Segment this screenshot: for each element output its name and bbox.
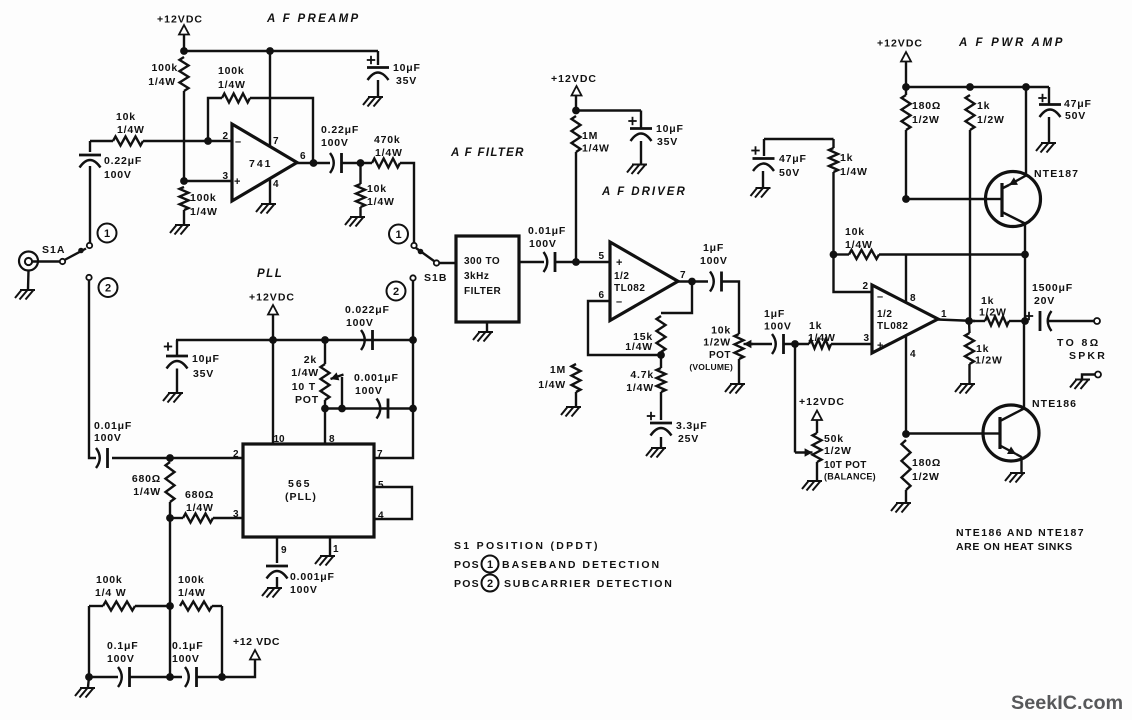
resistor R 10k 1/4W (feedback): [849, 250, 879, 259]
wire 1k gnd stub: [968, 364, 970, 383]
resistor R 1k 1/4W (pwr amp input): [809, 340, 831, 349]
svg-text:4.7k: 4.7k: [630, 369, 654, 381]
wire bottom rail a: [89, 676, 118, 678]
svg-text:1/2: 1/2: [614, 271, 629, 282]
svg-text:1/2W: 1/2W: [824, 445, 852, 457]
svg-text:POS: POS: [454, 578, 480, 590]
svg-text:S1 POSITION (DPDT): S1 POSITION (DPDT): [454, 540, 600, 552]
svg-text:10k: 10k: [711, 325, 731, 337]
node 100k centre: [166, 602, 174, 610]
svg-text:(VOLUME): (VOLUME): [689, 362, 733, 372]
capacitor C 0.022uF 100V: [361, 330, 365, 350]
switch arm S1A: [65, 249, 87, 261]
svg-text:–: –: [235, 136, 241, 148]
wire feedback from output: [661, 282, 692, 314]
wire pot bottom: [324, 400, 326, 409]
wire cap to terminal: [1047, 320, 1094, 322]
connector J1 BNC input: [19, 252, 38, 271]
ground 3.3uF: [646, 448, 666, 458]
ground 10k preamp out: [345, 217, 365, 227]
IC U2 565 PLL box: [243, 444, 374, 537]
svg-text:470k: 470k: [374, 134, 401, 146]
op-amp U3b 1/2 TL082: [872, 285, 938, 353]
wire pwr supply rail: [906, 86, 1049, 88]
switch contact S1B pos2: [410, 275, 415, 280]
svg-text:741: 741: [249, 158, 273, 170]
svg-text:POT: POT: [709, 350, 731, 361]
wire NTE186 base: [906, 432, 984, 434]
wire power to bottom rail: [222, 660, 255, 678]
switch contact S1A pos2: [86, 275, 91, 280]
svg-text:1/4W: 1/4W: [538, 379, 566, 391]
node output/1k: [965, 317, 973, 325]
svg-text:100V: 100V: [529, 238, 557, 250]
svg-text:SPKR: SPKR: [1069, 350, 1107, 362]
svg-text:1/4W: 1/4W: [808, 332, 836, 344]
capacitor C 0.01uF 100V (driver input): [544, 252, 548, 272]
node driver output: [688, 278, 696, 286]
svg-text:1/4W: 1/4W: [582, 143, 610, 155]
wire 10k to ground: [359, 207, 361, 217]
svg-text:10μF: 10μF: [393, 62, 421, 74]
svg-text:1: 1: [941, 309, 947, 320]
power symbol +12VDC (pwr): [901, 52, 911, 62]
node junction rail/R1: [180, 47, 188, 55]
wire cap to balance node: [784, 343, 810, 345]
capacitor C 0.01uF 100V (PLL input): [96, 448, 100, 468]
resistor R 100k 1/4W (left): [103, 602, 135, 611]
svg-text:35V: 35V: [657, 136, 678, 148]
svg-text:7: 7: [680, 270, 686, 281]
svg-text:1: 1: [104, 228, 110, 240]
ground non-inv divider: [170, 225, 190, 235]
ground speaker return: [1070, 380, 1090, 390]
wire BNC to switch pole: [32, 260, 60, 262]
svg-text:100V: 100V: [321, 137, 349, 149]
wire centre vert: [169, 606, 171, 677]
wire PLL power down to rail: [272, 315, 274, 341]
potentiometer R 50k 1/2W 10T POT (BALANCE): [816, 420, 818, 433]
svg-text:(BALANCE): (BALANCE): [824, 472, 876, 482]
svg-text:+12VDC: +12VDC: [249, 292, 295, 304]
svg-text:1/4W: 1/4W: [375, 147, 403, 159]
node wiper bottom: [338, 405, 346, 413]
svg-text:1/4W: 1/4W: [291, 367, 319, 379]
svg-text:10μF: 10μF: [192, 353, 220, 365]
svg-text:1/4W: 1/4W: [178, 587, 206, 599]
wire 15k to node: [660, 352, 662, 358]
svg-text:POS: POS: [454, 559, 480, 571]
node rail/2k pot: [321, 336, 329, 344]
svg-text:ARE ON HEAT SINKS: ARE ON HEAT SINKS: [956, 541, 1073, 553]
svg-text:S1B: S1B: [424, 272, 447, 284]
svg-text:10T POT: 10T POT: [824, 460, 867, 471]
svg-text:2: 2: [233, 449, 239, 460]
wire bottom rail c: [197, 676, 223, 678]
wire feedback loop right: [250, 98, 313, 163]
wire left vert: [88, 606, 90, 677]
filter block 300 TO 3kHz: [456, 236, 519, 322]
node bottom centre: [166, 673, 174, 681]
resistor R 1k 1/2W (to gnd): [968, 321, 971, 333]
svg-text:1k: 1k: [981, 295, 994, 307]
svg-text:0.22μF: 0.22μF: [104, 155, 142, 167]
wire pin4 down: [905, 336, 907, 434]
switch pole S1B: [434, 260, 439, 265]
svg-text:10k: 10k: [116, 111, 136, 123]
svg-text:1k: 1k: [809, 320, 822, 332]
wire pin2 drop: [834, 255, 873, 293]
capacitor C 0.001uF 100V (pin9): [266, 565, 288, 568]
svg-text:1/4W: 1/4W: [625, 341, 653, 353]
wire balance node down: [794, 344, 796, 453]
svg-text:1k: 1k: [977, 100, 990, 112]
svg-text:10k: 10k: [367, 183, 387, 195]
svg-text:TL082: TL082: [877, 321, 908, 332]
svg-text:1/4W: 1/4W: [845, 239, 873, 251]
ground NTE186 emitter: [1005, 473, 1025, 483]
wire 1k to pin3: [831, 343, 872, 345]
svg-text:50V: 50V: [779, 167, 800, 179]
wire PLL supply rail: [176, 339, 413, 341]
svg-text:3.3μF: 3.3μF: [676, 420, 707, 432]
svg-text:(PLL): (PLL): [285, 491, 317, 503]
wire 1k bias down: [832, 172, 834, 255]
ground output 1k: [955, 384, 975, 394]
svg-text:+12 VDC: +12 VDC: [233, 636, 280, 648]
ground 565 pin1: [315, 556, 335, 566]
svg-text:100V: 100V: [172, 653, 200, 665]
svg-text:0.1μF: 0.1μF: [107, 640, 138, 652]
wire NTE187 collector down: [1024, 224, 1026, 322]
ground volume pot: [725, 384, 745, 394]
capacitor C 1500uF 20V: [1025, 315, 1033, 317]
svg-text:1/4W: 1/4W: [367, 196, 395, 208]
svg-text:1/4W: 1/4W: [117, 124, 145, 136]
node speaker junction: [1021, 317, 1029, 325]
wire pin2 input: [112, 457, 243, 459]
svg-text:2: 2: [222, 131, 228, 142]
ground 1M lower: [561, 407, 581, 417]
svg-text:1/4W: 1/4W: [133, 486, 161, 498]
wire cap to volume pot: [722, 282, 740, 335]
node rail/180: [902, 83, 910, 91]
svg-text:2: 2: [393, 286, 399, 298]
svg-text:A F FILTER: A F FILTER: [450, 147, 525, 159]
node rail/right vert: [409, 336, 417, 344]
svg-text:+: +: [877, 340, 883, 352]
volume pot wiper arrow: [744, 343, 754, 345]
svg-text:6: 6: [300, 151, 306, 162]
svg-text:1/4W: 1/4W: [626, 382, 654, 394]
svg-text:0.01μF: 0.01μF: [94, 420, 132, 432]
svg-text:0.22μF: 0.22μF: [321, 124, 359, 136]
svg-text:NTE187: NTE187: [1034, 168, 1079, 180]
wire pin8 up: [905, 255, 907, 303]
node pin2/680: [166, 454, 174, 462]
ground 47uF left: [751, 188, 771, 198]
capacitor C 0.1uF 100V (left): [118, 667, 122, 687]
capacitor C 47uF 50V (pwr bypass right): [1048, 87, 1050, 104]
svg-text:1/2W: 1/2W: [975, 355, 1003, 367]
node rail/1k: [966, 83, 974, 91]
terminal speaker +: [1094, 318, 1100, 324]
wire pot bottom rail: [325, 407, 413, 409]
resistor R 4.7k 1/4W: [660, 355, 662, 368]
wire cap to 470k node: [342, 162, 373, 164]
resistor R 470k 1/4W: [372, 159, 400, 168]
svg-text:100k: 100k: [96, 574, 123, 586]
resistor R 15k 1/4W: [657, 316, 666, 352]
ground 10uF preamp: [363, 97, 383, 107]
wire cap to pin5 node: [555, 261, 576, 263]
svg-text:300 TO: 300 TO: [464, 256, 500, 267]
wire NTE186 emitter to gnd: [1020, 457, 1022, 473]
capacitor C 0.1uF 100V (right): [185, 667, 189, 687]
wire power to rail: [183, 35, 185, 52]
node rail/NTE187: [1022, 83, 1030, 91]
resistor R 100k 1/4W (right): [180, 602, 212, 611]
node label circled 1 (S1A): [98, 224, 117, 243]
svg-text:47μF: 47μF: [1064, 98, 1092, 110]
wire pin2 stub: [208, 140, 232, 142]
svg-text:35V: 35V: [396, 75, 417, 87]
svg-text:TL082: TL082: [614, 283, 645, 294]
power symbol +12VDC (PLL): [268, 305, 278, 315]
wire pin1 down: [329, 537, 331, 556]
capacitor C 3.3uF 25V: [660, 392, 662, 420]
node pin5 junction: [572, 258, 580, 266]
svg-text:TO 8Ω: TO 8Ω: [1057, 337, 1101, 349]
svg-text:100V: 100V: [107, 653, 135, 665]
wire pin10 to rail: [272, 340, 274, 444]
node 0.001 right: [409, 405, 417, 413]
wire output pin7: [678, 280, 708, 282]
capacitor C 10uF 35V (driver bypass): [640, 111, 642, 129]
svg-text:3kHz: 3kHz: [464, 271, 489, 282]
resistor R 680ohm 1/4W (vertical): [166, 462, 175, 502]
wire top supply rail: [184, 50, 378, 52]
potentiometer R 10k 1/2W POT (VOLUME): [735, 334, 744, 359]
svg-text:1/2W: 1/2W: [703, 337, 731, 349]
svg-text:1k: 1k: [976, 343, 989, 355]
wire right vertical to pin7: [374, 280, 413, 458]
switch arm S1B: [416, 248, 434, 261]
node junction rail/pin7: [266, 47, 274, 55]
svg-text:100V: 100V: [104, 169, 132, 181]
wire pwr output: [938, 320, 975, 322]
node pin2 fb junction: [830, 251, 838, 259]
svg-text:1/4W: 1/4W: [218, 79, 246, 91]
svg-text:7: 7: [273, 136, 279, 147]
wire R 100k to pin2 node: [183, 91, 185, 181]
svg-text:1k: 1k: [840, 152, 853, 164]
wire 100k right end: [212, 605, 222, 607]
wire 180 lower to gnd: [905, 490, 907, 502]
wire 10k fb to collector node: [879, 253, 1025, 255]
svg-text:1/2W: 1/2W: [912, 114, 940, 126]
svg-text:25V: 25V: [678, 433, 699, 445]
svg-text:100k: 100k: [151, 62, 178, 74]
svg-text:2: 2: [105, 282, 111, 294]
resistor R 100k 1/4W (inverting input pull-up): [180, 57, 189, 91]
potentiometer R 2k 1/4W 10T: [324, 340, 326, 364]
svg-text:1: 1: [487, 559, 493, 571]
resistor R 180ohm 1/2W (upper): [902, 95, 911, 130]
svg-text:50V: 50V: [1065, 110, 1086, 122]
resistor R 100k 1/4W (feedback): [222, 94, 250, 103]
op-amp U3a 1/2 TL082: [610, 242, 678, 321]
wire NTE186 collector up: [1023, 321, 1025, 409]
resistor R 1k 1/2W (upper): [966, 95, 975, 130]
wire pin9 down: [276, 537, 278, 563]
svg-text:100V: 100V: [700, 255, 728, 267]
svg-text:100V: 100V: [764, 321, 792, 333]
node balance junction: [791, 340, 799, 348]
svg-text:+12VDC: +12VDC: [877, 38, 923, 50]
svg-text:A F DRIVER: A F DRIVER: [601, 186, 687, 198]
ground op-amp pin4: [256, 204, 276, 214]
wire 1k to spkr node: [1009, 320, 1025, 322]
node NTE187 base: [902, 195, 910, 203]
wire driver power down: [575, 95, 577, 112]
wire 180 to base node: [905, 130, 907, 199]
svg-text:8: 8: [910, 293, 916, 304]
svg-text:0.1μF: 0.1μF: [172, 640, 203, 652]
svg-text:NTE186: NTE186: [1032, 398, 1077, 410]
svg-text:0.001μF: 0.001μF: [354, 372, 399, 384]
capacitor C 10uF 35V (preamp supply bypass): [377, 51, 379, 65]
resistor R 1M 1/4W (lower): [572, 364, 581, 392]
wire filter to cap: [519, 261, 544, 263]
wire 100k left end: [89, 605, 103, 607]
wire pin5 stub: [576, 261, 610, 263]
svg-text:4: 4: [910, 349, 916, 360]
resistor R 180ohm 1/2W (lower): [902, 440, 911, 490]
power symbol +12VDC (driver): [572, 86, 582, 96]
svg-text:PLL: PLL: [257, 268, 283, 280]
svg-text:–: –: [877, 291, 883, 303]
svg-text:1/2: 1/2: [877, 309, 892, 320]
svg-text:100V: 100V: [94, 432, 122, 444]
ground 47uF right: [1036, 143, 1056, 153]
ground 180 lower: [891, 503, 911, 513]
capacitor C 1uF 100V (driver output): [710, 272, 714, 292]
svg-text:180Ω: 180Ω: [912, 100, 941, 112]
ground pin9 cap: [262, 588, 282, 598]
svg-text:1μF: 1μF: [764, 308, 785, 320]
svg-text:10k: 10k: [845, 226, 865, 238]
wire pole to filter: [439, 262, 456, 264]
svg-text:2: 2: [487, 578, 493, 590]
svg-text:+12VDC: +12VDC: [157, 14, 203, 26]
power symbol +12VDC (bottom): [250, 650, 260, 660]
svg-text:NTE186 AND NTE187: NTE186 AND NTE187: [956, 527, 1085, 539]
node 680 junction: [166, 514, 174, 522]
svg-text:SUBCARRIER DETECTION: SUBCARRIER DETECTION: [504, 578, 674, 590]
capacitor C 1uF 100V (interstage): [751, 343, 772, 345]
svg-text:10 T: 10 T: [292, 381, 316, 393]
node pin2 junction: [204, 137, 212, 145]
svg-text:1/4W: 1/4W: [186, 502, 214, 514]
svg-text:2k: 2k: [304, 354, 317, 366]
resistor R 10k 1/4W (to gnd): [359, 163, 361, 184]
wire pin6 feedback: [588, 301, 661, 355]
svg-text:1/4W: 1/4W: [840, 166, 868, 178]
node output junction: [310, 159, 318, 167]
wire pin3 stub: [184, 180, 232, 182]
svg-text:BASEBAND DETECTION: BASEBAND DETECTION: [502, 559, 661, 571]
svg-text:50k: 50k: [824, 433, 844, 445]
svg-text:4: 4: [378, 511, 384, 522]
svg-text:35V: 35V: [193, 368, 214, 380]
svg-text:47μF: 47μF: [779, 153, 807, 165]
svg-text:680Ω: 680Ω: [185, 489, 214, 501]
wire 1M to pin5 node: [575, 152, 577, 262]
wire pin 7 to rail: [269, 51, 271, 147]
resistor R 1k 1/2W (output series): [969, 320, 985, 322]
svg-text:1μF: 1μF: [703, 242, 724, 254]
wire 1k down to output node: [969, 130, 971, 321]
wire 100k to ground: [183, 210, 185, 224]
svg-text:100V: 100V: [355, 385, 383, 397]
svg-text:20V: 20V: [1034, 295, 1055, 307]
resistor R 1k 1/4W (bias): [832, 139, 834, 148]
wire input cap to switch contact: [89, 166, 91, 243]
wire fb node to resistor: [834, 253, 850, 255]
svg-text:A F PWR AMP: A F PWR AMP: [958, 37, 1065, 49]
svg-text:0.001μF: 0.001μF: [290, 571, 335, 583]
node pot bottom: [321, 405, 329, 413]
wire 1M lower to gnd: [575, 392, 577, 406]
svg-text:FILTER: FILTER: [464, 286, 502, 297]
svg-text:6: 6: [598, 290, 604, 301]
svg-text:SeekIC.com: SeekIC.com: [1011, 692, 1123, 714]
svg-text:5: 5: [378, 480, 384, 491]
transistor Q1 NTE187: [986, 172, 1041, 227]
svg-text:100V: 100V: [290, 584, 318, 596]
svg-text:1/2W: 1/2W: [977, 114, 1005, 126]
node 470k junction: [357, 159, 365, 167]
svg-text:+: +: [616, 257, 622, 269]
svg-text:8: 8: [329, 434, 335, 445]
wire spkr return: [1082, 375, 1095, 380]
node label circled 2 (S1A): [99, 278, 118, 297]
svg-text:4: 4: [273, 179, 279, 190]
node collector/10k fb: [1021, 251, 1029, 259]
node 15k/4.7k: [657, 351, 665, 359]
svg-text:A F PREAMP: A F PREAMP: [266, 13, 361, 25]
wire to bypass cap: [576, 109, 641, 111]
node bottom left: [85, 673, 93, 681]
svg-text:1: 1: [395, 229, 401, 241]
resistor R 680ohm 1/4W (to pin3): [183, 514, 213, 523]
svg-text:7: 7: [377, 449, 383, 460]
svg-text:1500μF: 1500μF: [1032, 282, 1073, 294]
resistor R 100k 1/4W (non-inv to gnd): [180, 187, 189, 210]
wire pin8 to pot: [324, 409, 326, 445]
svg-text:2: 2: [862, 281, 868, 292]
svg-text:3: 3: [863, 333, 869, 344]
node label circled 1 (S1B): [389, 225, 408, 244]
svg-text:100V: 100V: [346, 317, 374, 329]
svg-text:1/4W: 1/4W: [148, 76, 176, 88]
svg-text:–: –: [616, 296, 622, 308]
wire 680 to node: [169, 502, 171, 518]
ground PLL 10uF: [163, 393, 183, 403]
switch contact S1A pos1: [87, 243, 92, 248]
wire balance pot to gnd: [816, 462, 818, 480]
